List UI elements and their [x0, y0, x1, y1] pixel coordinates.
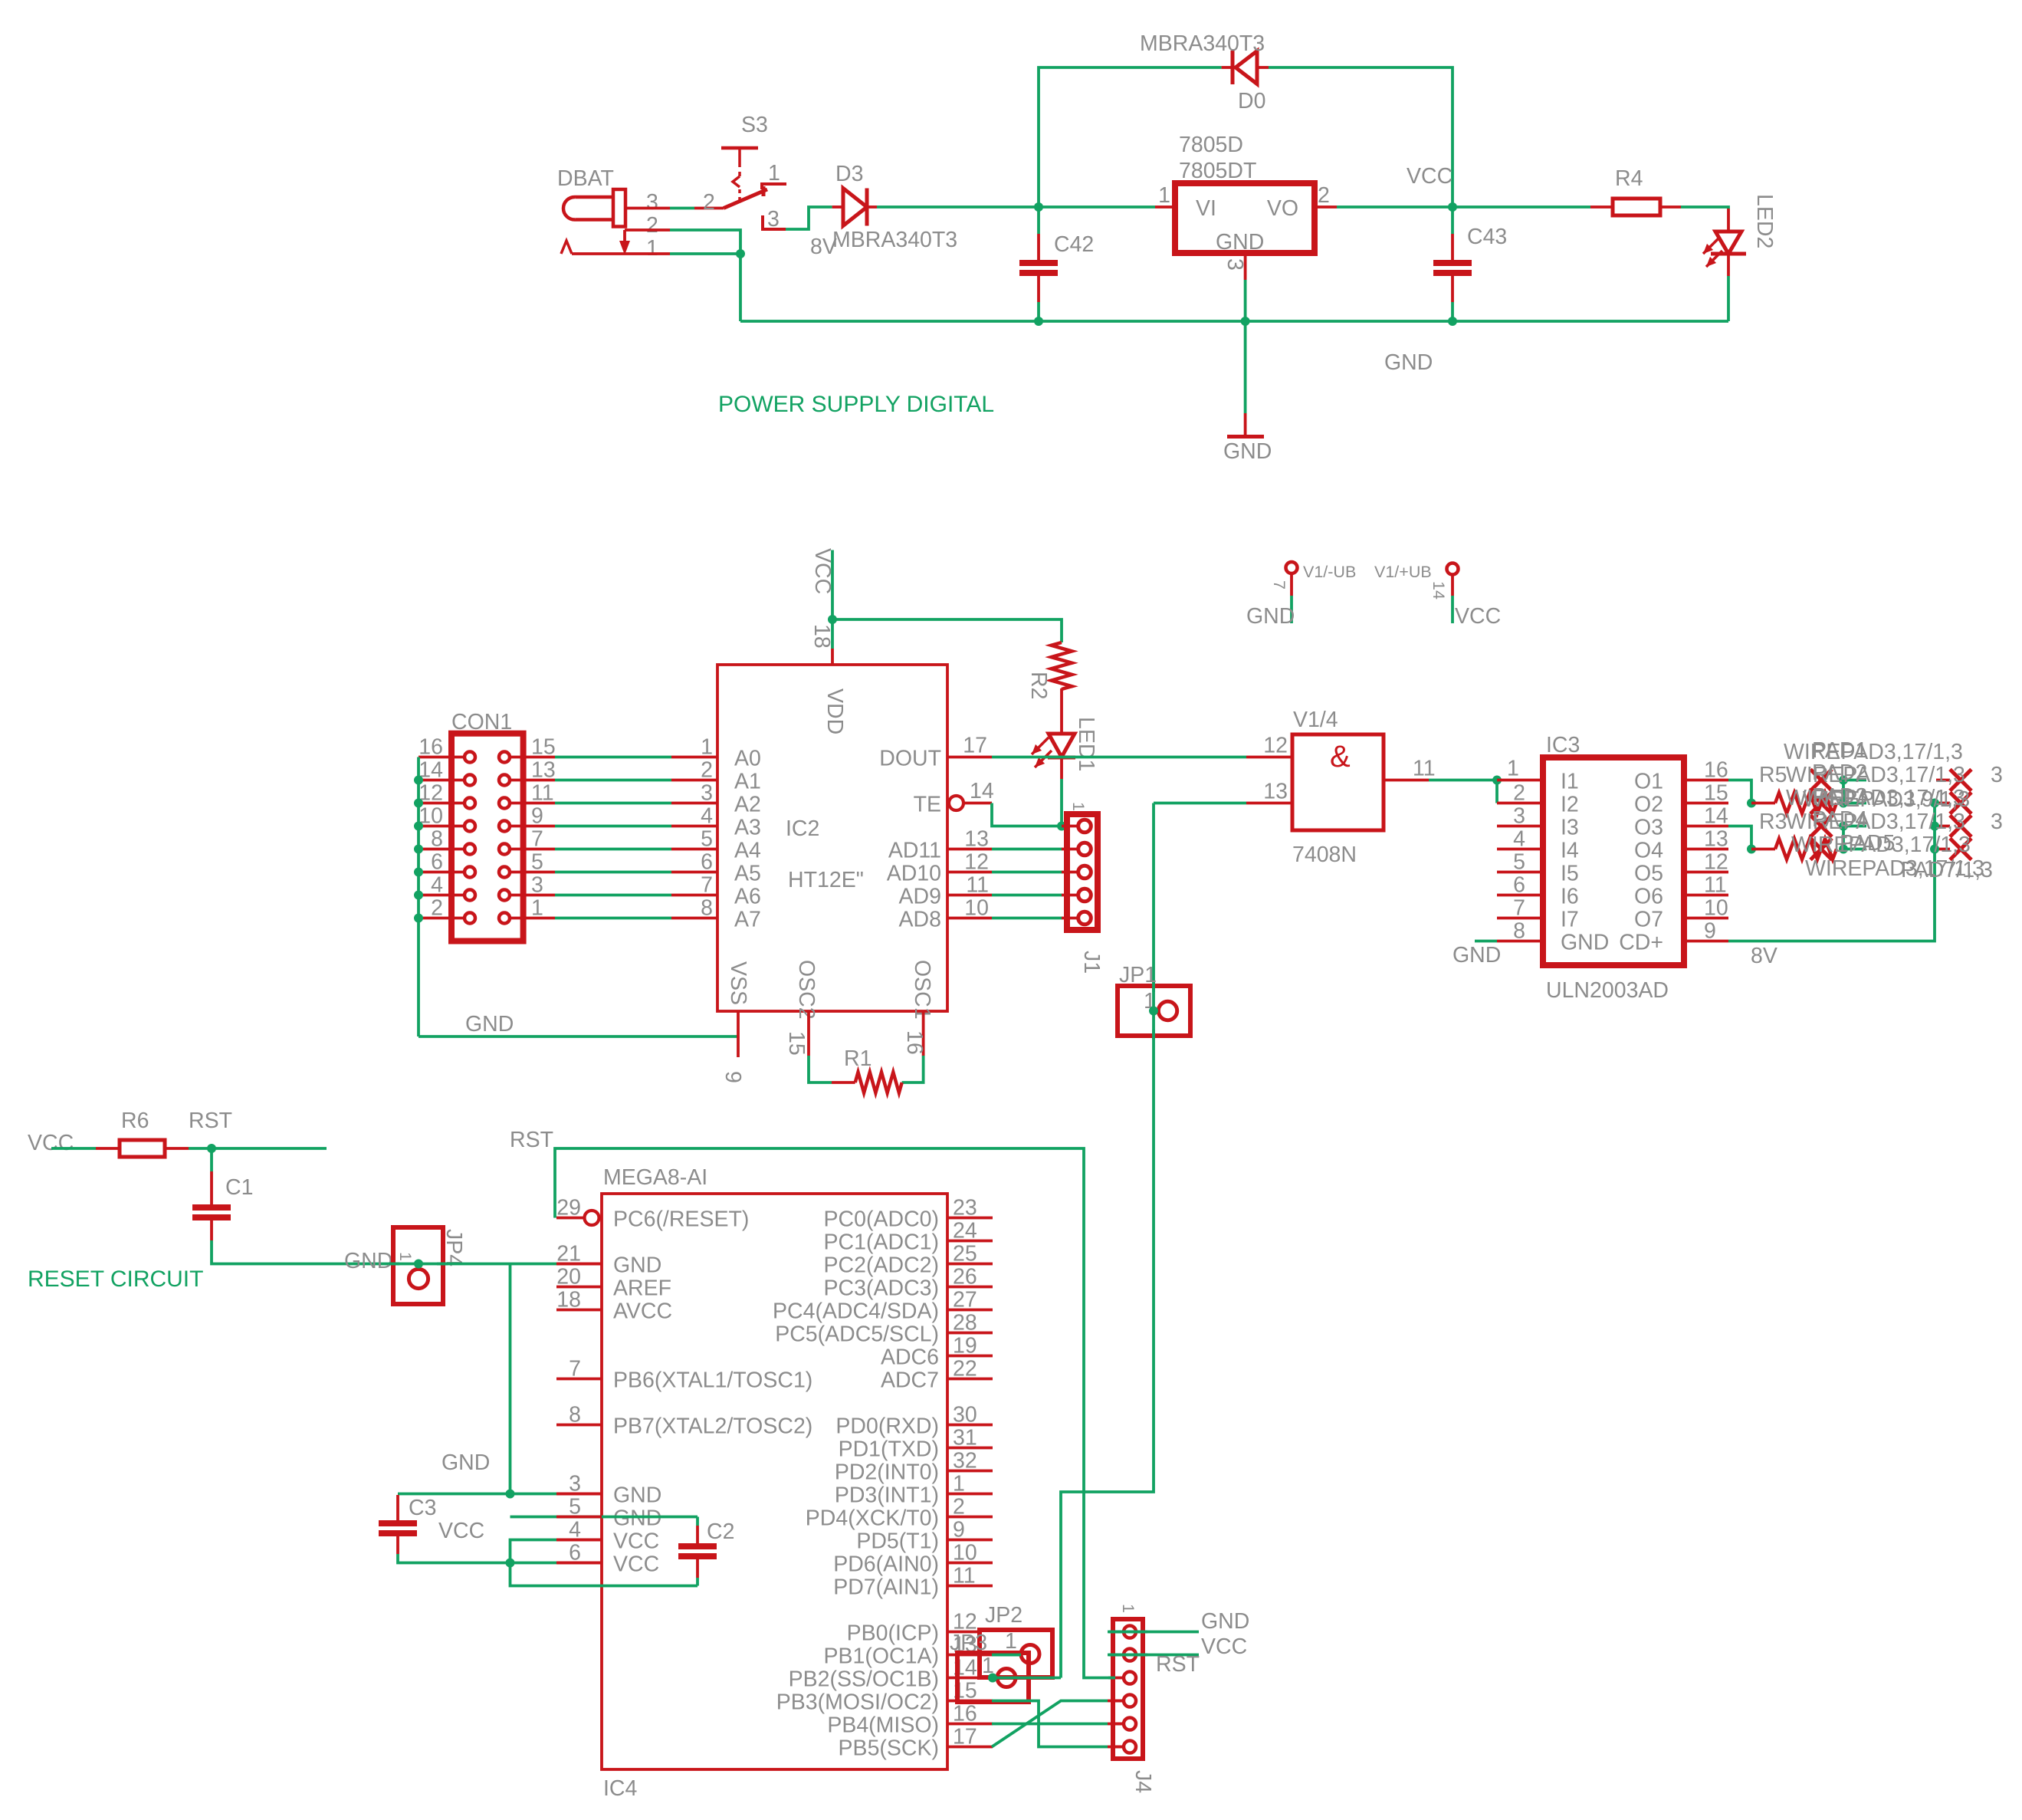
- node rail junction C43: [1448, 317, 1457, 326]
- svg-text:JP3: JP3: [950, 1631, 987, 1655]
- svg-text:ADC7: ADC7: [881, 1368, 939, 1393]
- wirepad labels: [1759, 738, 2003, 882]
- svg-text:O5: O5: [1634, 862, 1663, 886]
- AND gate V1/4 7408N: [1246, 708, 1436, 867]
- svg-text:13: 13: [531, 758, 556, 783]
- battery jack DBAT: [557, 166, 658, 261]
- svg-text:GND: GND: [613, 1483, 661, 1508]
- wire R6 to RST node: [189, 1147, 212, 1150]
- svg-text:POWER SUPPLY DIGITAL: POWER SUPPLY DIGITAL: [718, 392, 994, 417]
- connector CON1: [419, 710, 556, 941]
- svg-text:GND: GND: [465, 1012, 514, 1036]
- svg-text:9: 9: [531, 804, 543, 829]
- svg-text:3: 3: [1513, 804, 1525, 829]
- resistor R3: [1751, 839, 1837, 859]
- svg-text:PC2(ADC2): PC2(ADC2): [824, 1253, 939, 1278]
- svg-text:WIREPAD3,17/1,3: WIREPAD3,17/1,3: [1784, 740, 1963, 764]
- svg-text:C43: C43: [1467, 225, 1507, 249]
- svg-text:DBAT: DBAT: [557, 166, 614, 191]
- wire LED1 to J1 junction: [1060, 779, 1063, 826]
- svg-text:PB4(MISO): PB4(MISO): [827, 1713, 939, 1738]
- wire TE to J1 pin1: [992, 803, 1062, 826]
- svg-text:D3: D3: [835, 162, 863, 186]
- svg-text:I6: I6: [1561, 885, 1579, 909]
- wire R4 to LED2: [1681, 207, 1728, 209]
- svg-text:A1: A1: [734, 770, 761, 794]
- svg-text:JP1: JP1: [1119, 963, 1157, 987]
- svg-text:C1: C1: [225, 1175, 253, 1200]
- IC2 pin 18 VDD stub: [809, 624, 834, 665]
- jumper JP2: [980, 1603, 1052, 1677]
- svg-text:VDD: VDD: [822, 688, 847, 734]
- wire 8V column: [1728, 803, 1935, 941]
- svg-text:O1: O1: [1634, 770, 1663, 794]
- svg-text:1: 1: [1005, 1629, 1017, 1654]
- node CON1 bus junction row 7: [414, 914, 423, 923]
- wire battery to ground rail: [739, 254, 742, 321]
- svg-text:I5: I5: [1561, 862, 1579, 886]
- svg-text:2: 2: [646, 213, 658, 238]
- node input junction: [1034, 202, 1043, 212]
- svg-text:6: 6: [701, 850, 713, 875]
- svg-text:3: 3: [531, 873, 543, 898]
- IC IC2 HT12E: [701, 665, 947, 1020]
- svg-text:V1/-UB: V1/-UB: [1303, 563, 1356, 581]
- svg-text:1: 1: [1069, 802, 1088, 811]
- svg-text:O3: O3: [1634, 816, 1663, 840]
- svg-text:PD1(TXD): PD1(TXD): [839, 1437, 939, 1462]
- DBAT pin 3 wire to switch: [625, 207, 724, 210]
- node RST junction: [207, 1144, 216, 1153]
- svg-text:O7: O7: [1634, 908, 1663, 932]
- node CON1 bus junction row 5: [414, 868, 423, 877]
- svg-text:GND: GND: [1223, 439, 1272, 464]
- svg-text:12: 12: [1263, 734, 1288, 758]
- svg-text:12: 12: [1704, 850, 1728, 875]
- IC IC4 MEGA8-AI: [556, 1165, 993, 1801]
- svg-text:PAD2: PAD2: [1812, 761, 1867, 785]
- power pin VCC above IC2: [810, 548, 835, 649]
- svg-text:10: 10: [964, 896, 989, 921]
- svg-text:GND: GND: [613, 1506, 661, 1531]
- wire PB1 overlay: [992, 1654, 1021, 1657]
- svg-text:16: 16: [902, 1030, 927, 1055]
- svg-text:15: 15: [1704, 781, 1728, 806]
- voltage regulator 7805D: [1155, 133, 1337, 280]
- wire vcc pin4 branch: [510, 1540, 602, 1563]
- node gnd pin3 junction: [506, 1490, 515, 1499]
- wire vcc pin6: [510, 1562, 602, 1565]
- svg-text:PAD7/1,3: PAD7/1,3: [1901, 858, 1993, 882]
- svg-text:AREF: AREF: [613, 1276, 671, 1301]
- svg-text:O2: O2: [1634, 793, 1663, 817]
- svg-text:2: 2: [1513, 781, 1525, 806]
- svg-text:14: 14: [1430, 581, 1448, 600]
- capacitor C42: [1019, 207, 1094, 321]
- svg-text:PB2(SS/OC1B): PB2(SS/OC1B): [789, 1667, 939, 1692]
- svg-text:PC0(ADC0): PC0(ADC0): [824, 1207, 939, 1232]
- svg-text:ULN2003AD: ULN2003AD: [1546, 978, 1669, 1003]
- svg-text:RST: RST: [1156, 1652, 1200, 1677]
- svg-text:OSC2: OSC2: [794, 960, 819, 1020]
- svg-text:V1/4: V1/4: [1293, 708, 1338, 732]
- node JP4 junction: [414, 1260, 423, 1269]
- svg-text:3: 3: [1223, 258, 1247, 271]
- capacitor C43: [1433, 207, 1507, 321]
- svg-text:GND: GND: [1246, 604, 1295, 629]
- wire gnd to pin21: [510, 1263, 602, 1266]
- node PB2 junction: [988, 1674, 997, 1683]
- svg-text:2: 2: [703, 190, 715, 215]
- resistor R2: [1026, 642, 1072, 699]
- switch S3: [703, 113, 786, 232]
- svg-text:R5: R5: [1759, 763, 1787, 787]
- svg-text:2: 2: [431, 896, 443, 921]
- svg-text:C2: C2: [707, 1519, 734, 1544]
- svg-text:16: 16: [1704, 758, 1728, 783]
- svg-text:10: 10: [1704, 896, 1728, 921]
- svg-text:R6: R6: [121, 1109, 149, 1133]
- svg-text:RST: RST: [510, 1128, 553, 1152]
- svg-text:PD4(XCK/T0): PD4(XCK/T0): [806, 1506, 939, 1531]
- svg-text:VCC: VCC: [810, 548, 835, 594]
- svg-text:13: 13: [1263, 780, 1288, 804]
- wire switch pin3 to diode D3: [786, 207, 832, 229]
- svg-text:4: 4: [1513, 827, 1525, 852]
- svg-text:PB5(SCK): PB5(SCK): [839, 1736, 939, 1761]
- svg-text:1: 1: [396, 1252, 415, 1261]
- jumper JP3: [950, 1631, 1029, 1702]
- wire IC3 I1-I2 tie: [1495, 780, 1498, 803]
- svg-text:DOUT: DOUT: [879, 747, 941, 771]
- wire VCC to R2: [832, 619, 1062, 642]
- svg-text:JP2: JP2: [985, 1603, 1022, 1628]
- connector J1: [1062, 802, 1104, 974]
- svg-text:I3: I3: [1561, 816, 1579, 840]
- svg-text:PAD5: PAD5: [1840, 831, 1895, 856]
- svg-text:3: 3: [646, 190, 658, 215]
- svg-text:VCC: VCC: [1407, 164, 1452, 189]
- wire CON1 bus left: [417, 757, 420, 1037]
- svg-text:1: 1: [646, 236, 658, 261]
- wire J4 pin1 gnd: [1108, 1631, 1199, 1634]
- svg-text:RESET CIRCUIT: RESET CIRCUIT: [28, 1266, 203, 1292]
- svg-text:R3: R3: [1759, 810, 1787, 834]
- svg-text:IC2: IC2: [786, 816, 819, 841]
- svg-text:C3: C3: [409, 1496, 436, 1520]
- svg-text:8V: 8V: [1751, 944, 1777, 968]
- wires CON1 to IC2 A0-A7: [555, 757, 717, 918]
- svg-text:1: 1: [768, 161, 780, 186]
- node CON1 bus junction row 2: [414, 799, 423, 808]
- svg-text:PB0(ICP): PB0(ICP): [847, 1621, 939, 1646]
- svg-text:IC4: IC4: [603, 1776, 638, 1801]
- svg-text:17: 17: [963, 734, 987, 758]
- svg-text:7: 7: [531, 827, 543, 852]
- svg-text:GND: GND: [1216, 230, 1264, 255]
- svg-text:7: 7: [701, 873, 713, 898]
- svg-text:AD11: AD11: [888, 839, 941, 863]
- node rail junction reg: [1241, 317, 1250, 326]
- svg-text:I1: I1: [1561, 770, 1579, 794]
- wire VCC to R6: [51, 1147, 120, 1150]
- svg-text:4: 4: [701, 804, 713, 829]
- svg-text:R1: R1: [844, 1046, 871, 1071]
- DBAT pin 1 wire with caret: [561, 241, 740, 254]
- resistor R6: [120, 1109, 189, 1157]
- wire 7408 pin13 net: [1154, 802, 1246, 805]
- svg-text:7: 7: [1513, 896, 1525, 921]
- node battery junction: [736, 249, 745, 258]
- node O2 junction: [1747, 799, 1756, 808]
- svg-text:3: 3: [1991, 810, 2003, 834]
- svg-text:IC3: IC3: [1546, 733, 1580, 757]
- svg-text:OSC1: OSC1: [910, 960, 934, 1020]
- wire O1-O2 tie: [1728, 780, 1751, 803]
- svg-text:9: 9: [1704, 919, 1716, 944]
- svg-text:5: 5: [1513, 850, 1525, 875]
- svg-text:15: 15: [531, 735, 556, 760]
- svg-text:PAD1: PAD1: [1812, 738, 1867, 763]
- svg-text:11: 11: [966, 873, 989, 898]
- svg-text:A2: A2: [734, 793, 761, 817]
- svg-text:&: &: [1330, 740, 1351, 774]
- svg-text:13: 13: [964, 827, 989, 852]
- svg-text:VCC: VCC: [1201, 1634, 1247, 1659]
- wire PB2 to JP3 and column: [993, 1677, 1061, 1680]
- jumper JP4: [393, 1227, 466, 1304]
- svg-text:11: 11: [531, 781, 554, 806]
- wire IC3 pin8 gnd: [1475, 940, 1497, 943]
- node CON1 bus junction row 3: [414, 822, 423, 831]
- svg-text:PB3(MOSI/OC2): PB3(MOSI/OC2): [776, 1690, 939, 1715]
- svg-text:LED2: LED2: [1752, 194, 1777, 248]
- wire J4 pin2 vcc: [1108, 1654, 1199, 1657]
- svg-text:6: 6: [431, 850, 443, 875]
- wires IC2 AD pins to J1: [947, 827, 1062, 921]
- svg-text:18: 18: [809, 624, 834, 649]
- svg-text:CON1: CON1: [451, 710, 512, 734]
- svg-text:PAD3: PAD3: [1812, 784, 1867, 809]
- svg-text:PD3(INT1): PD3(INT1): [835, 1483, 939, 1508]
- wire PB5 diagonal to J4 pin4: [992, 1701, 1124, 1747]
- wire JP4 crossing overlay: [389, 1263, 448, 1266]
- svg-text:9: 9: [721, 1071, 745, 1083]
- node VDD junction: [828, 615, 837, 624]
- wire ground rail: [740, 320, 1728, 323]
- svg-text:PD5(T1): PD5(T1): [856, 1529, 939, 1554]
- node CON1 bus junction row 4: [414, 845, 423, 854]
- svg-text:15: 15: [784, 1031, 809, 1056]
- svg-text:V1/+UB: V1/+UB: [1374, 563, 1432, 581]
- svg-text:J4: J4: [1131, 1770, 1155, 1793]
- wire gnd pin5 to C2: [510, 1517, 698, 1526]
- svg-text:VCC: VCC: [613, 1529, 659, 1554]
- wire bypass right down to VCC node: [1269, 67, 1452, 207]
- svg-text:7: 7: [1270, 580, 1288, 590]
- svg-text:AD8: AD8: [899, 908, 941, 932]
- node vcc junction: [506, 1559, 515, 1568]
- svg-text:GND: GND: [441, 1450, 490, 1475]
- resistor R1: [832, 1046, 902, 1093]
- svg-text:GND: GND: [1561, 931, 1609, 955]
- svg-text:PC3(ADC3): PC3(ADC3): [824, 1276, 939, 1301]
- capacitor C1: [192, 1148, 416, 1264]
- svg-text:16: 16: [419, 735, 443, 760]
- LED LED1: [1032, 688, 1098, 779]
- svg-text:PD7(AIN1): PD7(AIN1): [833, 1575, 939, 1600]
- svg-text:4: 4: [431, 873, 443, 898]
- svg-text:HT12E": HT12E": [788, 868, 864, 892]
- svg-text:A3: A3: [734, 816, 761, 840]
- wirepad X marks left column: [1810, 770, 1832, 860]
- wire PB3 to J4 pin6: [992, 1701, 1124, 1747]
- svg-text:GND: GND: [344, 1249, 392, 1273]
- svg-text:5: 5: [701, 827, 713, 852]
- node IC3 in junction: [1492, 776, 1502, 785]
- capacitor C3: [379, 1495, 510, 1563]
- wire PB4 to J4 pin5: [992, 1723, 1124, 1726]
- diode D3: [832, 162, 877, 226]
- wire RST stub right: [212, 1147, 327, 1150]
- wirepad X marks right column: [1936, 770, 1971, 860]
- svg-text:12: 12: [964, 850, 989, 875]
- svg-text:O4: O4: [1634, 839, 1663, 863]
- svg-text:A6: A6: [734, 885, 761, 909]
- wire 7408 pin13 vertical to JP1 and below: [1061, 803, 1154, 1678]
- svg-text:11: 11: [1704, 873, 1727, 898]
- IC IC3 ULN2003AD: [1497, 733, 1728, 1003]
- svg-text:PB6(XTAL1/TOSC1): PB6(XTAL1/TOSC1): [613, 1368, 812, 1393]
- node 8V junctions: [1930, 799, 1939, 854]
- svg-text:2: 2: [1318, 183, 1330, 208]
- svg-text:MEGA8-AI: MEGA8-AI: [603, 1165, 707, 1190]
- svg-text:CD+: CD+: [1619, 931, 1663, 955]
- svg-text:VO: VO: [1267, 196, 1298, 221]
- svg-text:3: 3: [1991, 763, 2003, 787]
- svg-text:R4: R4: [1615, 166, 1643, 191]
- wire JP1 crossing overlay: [1152, 982, 1155, 1040]
- svg-text:14: 14: [1704, 804, 1728, 829]
- node CON1 bus junction row 1: [414, 776, 423, 785]
- svg-text:VCC: VCC: [28, 1131, 74, 1155]
- svg-text:A0: A0: [734, 747, 761, 771]
- svg-text:MBRA340T3: MBRA340T3: [832, 228, 957, 252]
- wire input bypass up left: [1039, 67, 1222, 207]
- LED LED2: [1703, 194, 1777, 276]
- svg-text:O6: O6: [1634, 885, 1663, 909]
- svg-text:1: 1: [701, 735, 713, 760]
- svg-text:1: 1: [1507, 757, 1519, 781]
- svg-text:14: 14: [970, 779, 994, 803]
- svg-text:A5: A5: [734, 862, 761, 886]
- wire gnd pin3: [398, 1493, 602, 1496]
- IC2 pin 14 TE: [949, 779, 994, 810]
- svg-text:TE: TE: [914, 793, 941, 817]
- diode D0: [1222, 51, 1269, 84]
- svg-text:1: 1: [1119, 1604, 1137, 1613]
- svg-text:3: 3: [767, 207, 780, 232]
- svg-text:8: 8: [1513, 919, 1525, 944]
- wire vcc loop to C2: [510, 1563, 698, 1586]
- resistor R4: [1590, 166, 1681, 215]
- svg-text:LED1: LED1: [1074, 717, 1098, 771]
- power pin V1/-UB GND: [1246, 562, 1356, 629]
- svg-text:PC6(/RESET): PC6(/RESET): [613, 1207, 749, 1232]
- svg-text:ADC6: ADC6: [881, 1345, 939, 1370]
- svg-text:PB7(XTAL2/TOSC2): PB7(XTAL2/TOSC2): [613, 1414, 812, 1439]
- wire 7408 out to IC3: [1429, 779, 1497, 782]
- svg-text:PC5(ADC5/SCL): PC5(ADC5/SCL): [775, 1322, 939, 1347]
- svg-text:VI: VI: [1196, 196, 1216, 221]
- svg-text:3: 3: [701, 781, 713, 806]
- svg-text:C42: C42: [1054, 232, 1094, 257]
- wirepad junction dots: [1839, 776, 1848, 854]
- svg-text:8: 8: [431, 827, 443, 852]
- svg-text:VCC: VCC: [1455, 604, 1501, 629]
- ground symbol GND: [1223, 321, 1272, 464]
- svg-text:VCC: VCC: [438, 1519, 484, 1543]
- wire D3 to regulator input: [877, 205, 1155, 209]
- svg-text:A4: A4: [734, 839, 761, 863]
- svg-text:AD9: AD9: [899, 885, 941, 909]
- svg-text:PC4(ADC4/SDA): PC4(ADC4/SDA): [773, 1299, 939, 1324]
- svg-text:GND: GND: [1384, 350, 1433, 375]
- DBAT pin 2 wire: [619, 230, 740, 255]
- svg-text:11: 11: [1413, 757, 1436, 781]
- svg-text:PD2(INT0): PD2(INT0): [835, 1460, 939, 1485]
- svg-text:MBRA340T3: MBRA340T3: [1140, 31, 1265, 56]
- svg-text:PD6(AIN0): PD6(AIN0): [833, 1552, 939, 1577]
- wire LED2 to rail: [1727, 276, 1730, 321]
- wire RST to PC6 and J4: [555, 1148, 1113, 1678]
- node VCC junction: [1448, 202, 1457, 212]
- svg-text:I7: I7: [1561, 908, 1579, 932]
- svg-text:RST: RST: [189, 1109, 232, 1133]
- svg-text:VSS: VSS: [726, 961, 750, 1005]
- svg-text:PAD4: PAD4: [1812, 807, 1867, 832]
- svg-text:JP4: JP4: [441, 1229, 466, 1266]
- svg-text:R2: R2: [1026, 672, 1051, 699]
- capacitor C2: [678, 1519, 734, 1586]
- wire PB1 to JP2: [992, 1654, 1021, 1657]
- node O4 junction: [1747, 845, 1756, 854]
- svg-text:7408N: 7408N: [1292, 843, 1357, 867]
- node CON1 bus junction row 6: [414, 891, 423, 900]
- wire gnd vertical branch: [509, 1264, 512, 1494]
- IC2 pin 17 DOUT wire: [947, 734, 1246, 758]
- svg-text:A7: A7: [734, 908, 761, 932]
- svg-text:PB1(OC1A): PB1(OC1A): [824, 1644, 939, 1669]
- svg-text:J1: J1: [1079, 951, 1104, 974]
- node JP1 junction: [1149, 1007, 1158, 1016]
- wire O3-O4 tie: [1728, 826, 1751, 849]
- wire JP4 to MEGA8 gnd net: [419, 1263, 510, 1266]
- svg-text:5: 5: [531, 850, 543, 875]
- svg-text:2: 2: [701, 758, 713, 783]
- jumper JP1: [1118, 963, 1190, 1036]
- svg-text:I4: I4: [1561, 839, 1579, 863]
- svg-text:PD0(RXD): PD0(RXD): [835, 1414, 939, 1439]
- svg-text:GND: GND: [613, 1253, 661, 1278]
- svg-text:6: 6: [1513, 873, 1525, 898]
- svg-text:VCC: VCC: [613, 1552, 659, 1577]
- wire VCC output: [1337, 205, 1590, 209]
- wire GND to IC2 VSS: [419, 1035, 738, 1038]
- IC2 OSC pins and R1: [721, 1011, 927, 1083]
- svg-text:7805D: 7805D: [1179, 133, 1243, 157]
- svg-text:8: 8: [701, 896, 713, 921]
